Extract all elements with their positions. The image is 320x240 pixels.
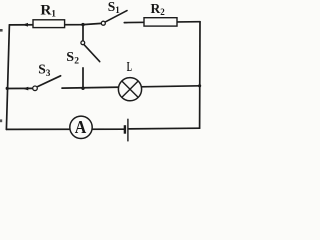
ammeter A (circle) xyxy=(70,116,92,138)
node A junction dot (top wire / S2 branch) xyxy=(81,23,84,26)
wire: middle horizontal from left wire to S3 xyxy=(7,87,33,89)
wire: middle horizontal from S3 through node B and lamp to right wire xyxy=(62,86,200,88)
svg-text:2: 2 xyxy=(160,7,165,17)
label S1 xyxy=(108,0,121,15)
svg-text:1: 1 xyxy=(115,5,120,15)
junction dot right wire / middle wire xyxy=(198,84,201,87)
switch S3 (pivot circle and open lever) xyxy=(33,76,61,91)
label R2 xyxy=(151,1,166,17)
resistor R1 (box) xyxy=(33,20,65,28)
label R1 xyxy=(40,1,56,19)
label S2 xyxy=(66,50,79,67)
wire: S2 branch upper segment from node A xyxy=(82,25,84,41)
lamp L (circle with X) xyxy=(118,78,141,101)
wire: S2 branch lower segment to node B xyxy=(82,68,84,88)
svg-text:3: 3 xyxy=(46,68,51,78)
svg-text:A: A xyxy=(75,117,87,137)
svg-text:L: L xyxy=(127,59,132,74)
svg-text:S: S xyxy=(38,61,46,76)
wire: right vertical conductor xyxy=(199,22,201,129)
wire: left vertical conductor xyxy=(6,25,9,129)
wire: top-left horizontal (battery loop top, through R1 to node A) xyxy=(9,23,101,25)
current arrow on top wire xyxy=(22,23,28,27)
edge speck left lower xyxy=(0,119,2,122)
current arrow on middle wire xyxy=(23,87,29,91)
svg-text:1: 1 xyxy=(51,10,56,20)
switch S1 (pivot circle and open lever) xyxy=(101,11,127,26)
wire: bottom horizontal left of battery xyxy=(6,128,124,130)
battery cell: long positive plate xyxy=(127,119,129,142)
switch S2 (pivot circle and open lever) xyxy=(81,41,100,62)
svg-text:S: S xyxy=(66,50,74,65)
svg-text:2: 2 xyxy=(74,57,79,67)
label S3 xyxy=(38,61,51,78)
wire: top-right horizontal (S1 to R2 to top-right corner) xyxy=(124,21,200,24)
battery cell: short negative plate xyxy=(124,125,126,134)
resistor R2 (box) xyxy=(144,18,177,26)
junction dot left wire / middle wire xyxy=(6,87,9,90)
svg-text:S: S xyxy=(108,0,116,14)
node B junction dot (middle wire / S2 branch) xyxy=(81,87,84,90)
svg-text:R: R xyxy=(151,1,161,16)
wire: bottom horizontal right of battery xyxy=(129,127,200,130)
edge speck left upper xyxy=(0,29,3,32)
